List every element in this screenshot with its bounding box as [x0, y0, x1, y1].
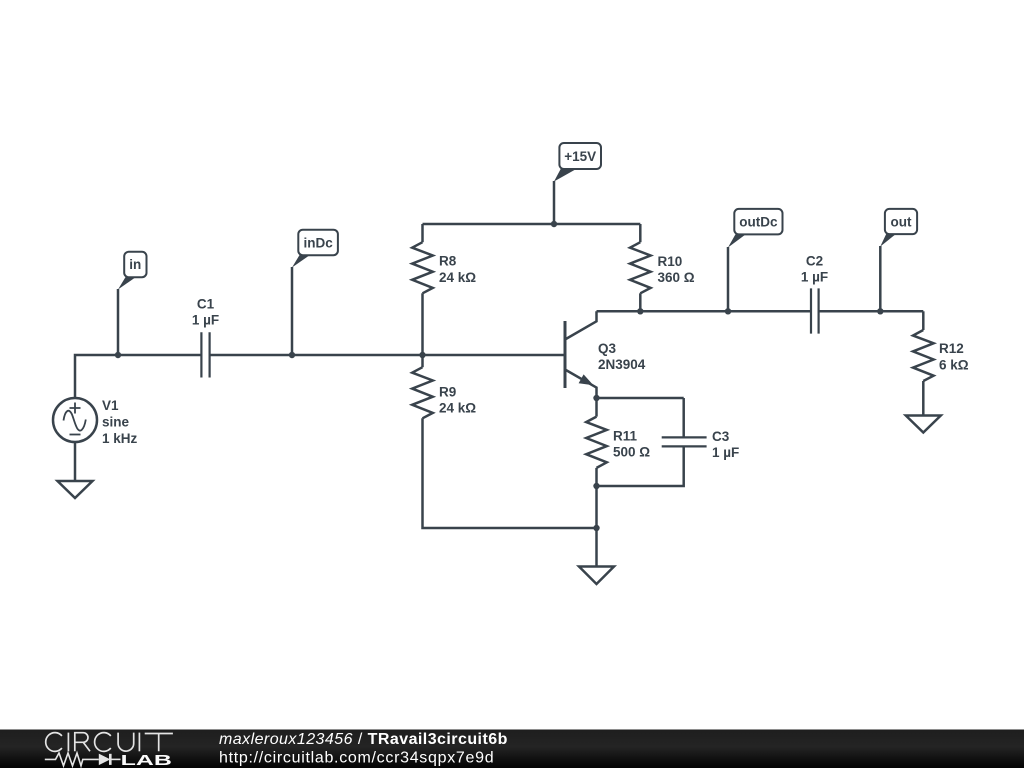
svg-text:1 µF: 1 µF — [192, 313, 219, 328]
logo diode triangle — [99, 754, 111, 766]
wire R8 bottom lead — [421, 293, 424, 355]
svg-text:http://circuitlab.com/ccr34sqp: http://circuitlab.com/ccr34sqpx7e9d — [219, 749, 494, 766]
label R10 — [658, 254, 695, 285]
svg-text:24 kΩ: 24 kΩ — [439, 270, 476, 285]
resistor R9 — [412, 367, 433, 418]
wire R10 bottom lead — [639, 293, 642, 311]
svg-text:R8: R8 — [439, 254, 457, 269]
node flag in — [118, 252, 147, 290]
junction node R11 bottom — [593, 483, 599, 489]
junction node +15V rail — [551, 221, 557, 227]
svg-text:1 µF: 1 µF — [712, 445, 739, 460]
junction node emitter — [593, 395, 599, 401]
svg-text:6 kΩ: 6 kΩ — [939, 358, 969, 373]
label Q3 — [598, 341, 646, 372]
wire R9 bottom to ground node — [423, 418, 597, 528]
svg-text:1 kHz: 1 kHz — [102, 431, 138, 446]
wire R12 bottom lead — [922, 381, 925, 416]
svg-text:maxleroux123456 / TRavail3circ: maxleroux123456 / TRavail3circuit6b — [219, 731, 508, 748]
wire R10 top lead — [639, 224, 642, 242]
junction node inDc — [289, 352, 295, 358]
ground under R12 — [906, 416, 941, 433]
wire R12 top lead — [922, 311, 925, 330]
transistor Q3 emitter lead — [565, 370, 597, 399]
resistor R12 — [913, 330, 934, 381]
svg-text:R9: R9 — [439, 384, 456, 399]
voltage source V1 circle — [53, 398, 97, 442]
transistor Q3 base bar — [564, 321, 567, 388]
svg-text:R10: R10 — [658, 254, 683, 269]
ground bottom center — [579, 567, 614, 585]
resistor R8 — [412, 242, 433, 293]
transistor Q3 collector lead — [565, 311, 597, 339]
label R9 — [439, 384, 476, 415]
svg-text:500 Ω: 500 Ω — [613, 444, 650, 459]
svg-text:R12: R12 — [939, 341, 964, 356]
junction node collector R10 — [637, 308, 643, 314]
svg-text:sine: sine — [102, 415, 130, 430]
junction node out — [877, 308, 883, 314]
wire outDc riser — [727, 247, 730, 311]
resistor R11 — [586, 417, 607, 468]
svg-text:out: out — [891, 214, 912, 229]
wire R11 bottom lead — [595, 468, 598, 528]
logo CIRCUIT letters — [46, 733, 173, 752]
svg-text:R11: R11 — [613, 428, 638, 443]
junction node base divider — [419, 352, 425, 358]
V1 sine wave — [64, 411, 86, 431]
capacitor C2 plates — [811, 288, 819, 333]
V1 plus sign — [70, 403, 81, 414]
wire main right from C1 to Q3 base — [210, 354, 564, 357]
wire riser node inDc — [291, 267, 294, 355]
node flag inDc — [292, 230, 338, 268]
node flag out — [880, 209, 917, 247]
wire R11 top lead — [595, 398, 598, 417]
svg-text:24 kΩ: 24 kΩ — [439, 400, 476, 415]
wire main left from V1 to C1 — [75, 355, 201, 399]
wire +15V riser — [553, 181, 556, 224]
wire riser node in — [117, 289, 120, 355]
wire C3 branch bottom — [597, 446, 684, 486]
wire R9 top lead — [421, 355, 424, 367]
ground under V1 — [58, 481, 93, 498]
capacitor C1 plates — [201, 332, 209, 377]
wire top rail — [423, 223, 641, 226]
resistor R10 — [630, 242, 651, 293]
transistor Q3 emitter arrow — [579, 374, 594, 385]
wire emitter row — [597, 397, 684, 400]
V1 minus sign — [70, 434, 81, 436]
svg-text:1 µF: 1 µF — [801, 270, 828, 285]
label C1 — [192, 297, 219, 328]
logo resistor-diode glyph — [45, 753, 121, 766]
svg-text:2N3904: 2N3904 — [598, 357, 646, 372]
svg-text:+15V: +15V — [564, 149, 596, 164]
junction node ground wire — [593, 525, 599, 531]
svg-text:V1: V1 — [102, 398, 119, 413]
svg-text:C1: C1 — [197, 297, 215, 312]
svg-text:LAB: LAB — [121, 753, 172, 768]
label C2 — [801, 254, 828, 285]
wire V1 bottom to ground — [74, 442, 77, 481]
label V1 — [102, 398, 138, 446]
svg-text:360 Ω: 360 Ω — [658, 270, 695, 285]
node flag outDc — [728, 209, 783, 248]
svg-text:inDc: inDc — [303, 235, 333, 250]
wire collector rail right — [819, 310, 924, 313]
svg-text:C3: C3 — [712, 429, 730, 444]
wire out riser — [879, 246, 882, 311]
svg-text:Q3: Q3 — [598, 341, 617, 356]
label C3 — [712, 429, 739, 460]
label R8 — [439, 254, 476, 285]
footer bar — [0, 730, 1024, 768]
wire R8 top lead — [421, 224, 424, 242]
svg-text:outDc: outDc — [739, 214, 778, 229]
wire C3 branch down — [682, 398, 685, 437]
label R11 — [613, 428, 650, 459]
node flag +15V — [554, 143, 601, 182]
wire ground stem bottom — [595, 528, 598, 567]
svg-text:C2: C2 — [806, 254, 823, 269]
svg-text:in: in — [129, 257, 141, 272]
label R12 — [939, 341, 969, 373]
capacitor C3 plates — [662, 437, 707, 446]
junction node outDc — [725, 308, 731, 314]
junction node in — [115, 352, 121, 358]
wire collector rail left — [597, 310, 812, 313]
